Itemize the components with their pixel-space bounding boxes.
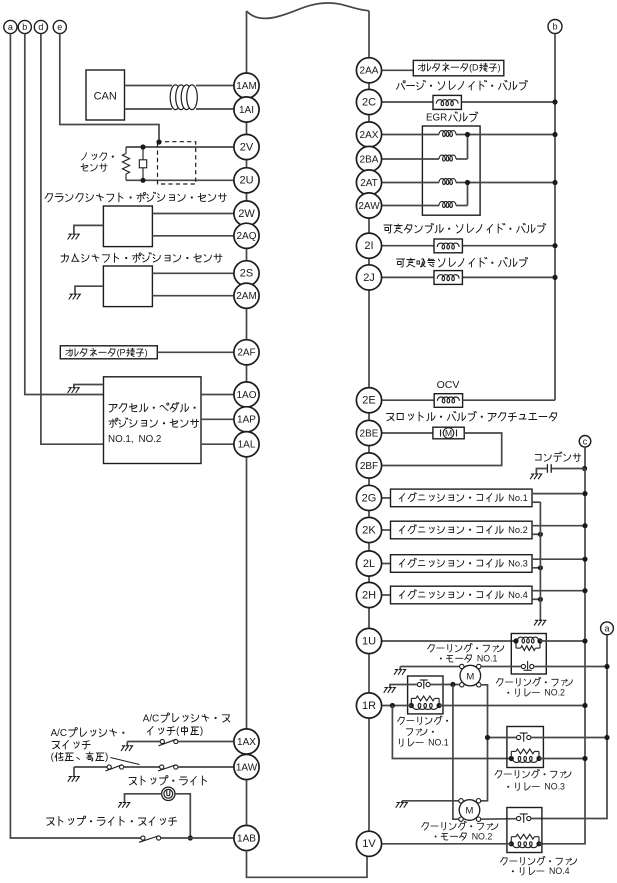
wire ign1 upper out xyxy=(532,493,585,495)
wire CAN low b xyxy=(196,108,234,110)
wire 2BE line xyxy=(382,432,433,434)
svg-text:2W: 2W xyxy=(238,208,255,220)
wire wave link xyxy=(247,3,370,18)
connector pin 2H xyxy=(356,582,381,607)
label fan relay2 line1 xyxy=(496,677,572,687)
wire AC lowhigh ground xyxy=(73,767,75,777)
svg-text:(D: (D xyxy=(469,63,479,73)
wire harness trunk right top xyxy=(368,11,370,58)
label camshaft position sensor xyxy=(61,253,222,262)
wire relay3 switch to a bus xyxy=(531,737,607,739)
svg-text:2AW: 2AW xyxy=(358,201,380,212)
wire motor1 ground stem xyxy=(399,667,401,670)
junction ign2 lower xyxy=(538,532,543,537)
connector pin 2AQ xyxy=(234,223,259,248)
wire relay1 ground xyxy=(390,685,417,688)
wire accel ground xyxy=(74,385,104,388)
label accel line2 xyxy=(109,418,199,428)
label EGR valve xyxy=(426,112,478,124)
connector pin 2J xyxy=(356,265,381,290)
cooling fan relay NO.1 box xyxy=(408,676,443,714)
node e (left) xyxy=(53,20,66,33)
EGR valve box xyxy=(422,126,480,215)
wire OCV to b bus xyxy=(463,399,555,401)
wire harness trunk left xyxy=(246,11,248,73)
wire relay1 coil to c bus xyxy=(439,705,585,707)
svg-text:No.2: No.2 xyxy=(508,525,528,535)
connector pin 1AO xyxy=(234,382,259,407)
wire 1U line xyxy=(382,640,516,642)
svg-text:2BF: 2BF xyxy=(360,461,378,472)
connector pin 2I xyxy=(356,233,381,258)
wire motor2 br to relay4 xyxy=(481,818,517,821)
junction EGR b xyxy=(465,180,470,185)
connector pin 1AB xyxy=(234,825,259,850)
wire switch to 1AB xyxy=(161,837,234,839)
wire relay4 coil right xyxy=(539,843,542,845)
label purge solenoid valve xyxy=(396,81,527,91)
junction ign1 upper xyxy=(582,491,587,496)
twisted pair coil xyxy=(170,85,197,110)
junction condenser xyxy=(582,466,587,471)
svg-text:オ: オ xyxy=(417,63,426,73)
label fan relay2 line2 xyxy=(507,688,565,698)
wire 2C line xyxy=(382,101,555,103)
wire bottom link xyxy=(247,851,368,878)
label fan relay1 line1 xyxy=(398,716,449,725)
wire CAN low xyxy=(125,108,173,110)
svg-text:1AM: 1AM xyxy=(236,81,257,92)
svg-text:2E: 2E xyxy=(362,395,375,407)
wire relay3 coil to c bus xyxy=(539,758,585,760)
wire ign3 lower out xyxy=(532,567,540,569)
svg-text:NO.2: NO.2 xyxy=(544,688,565,698)
junction a/relay2 xyxy=(604,664,609,669)
label fan motor2 line2 xyxy=(435,832,493,842)
switch AC low xyxy=(106,765,124,771)
connector pin 2U xyxy=(234,168,259,193)
svg-text:e: e xyxy=(57,22,62,32)
label throttle actuator xyxy=(387,412,557,422)
label fan relay3 line2 xyxy=(507,782,565,792)
knock sensor resistor xyxy=(122,147,129,180)
node a (right) xyxy=(601,622,614,635)
relay1 coil and resistor xyxy=(409,696,442,709)
svg-text:): ) xyxy=(200,726,203,737)
knock sensor piezo element xyxy=(139,147,146,180)
wire crank ground xyxy=(74,225,104,234)
wire AC lowhigh a xyxy=(74,766,107,768)
svg-text:2BE: 2BE xyxy=(360,428,379,439)
svg-text:NO.2: NO.2 xyxy=(472,832,493,842)
switch stop light xyxy=(139,836,161,843)
label fan relay1 line3 xyxy=(399,738,448,748)
connector pin 2V xyxy=(234,134,259,159)
throttle valve actuator xyxy=(433,427,464,439)
purge solenoid valve xyxy=(433,95,461,109)
junction ign4 upper xyxy=(582,588,587,593)
wire ignition ground bus xyxy=(539,502,541,620)
connector pin 2AT xyxy=(356,170,381,195)
label AC lowhigh line2 xyxy=(52,741,90,750)
wire accel to 1AO xyxy=(201,394,234,396)
junction knock bottom xyxy=(140,178,145,183)
svg-text:2H: 2H xyxy=(362,589,376,601)
connector pin 1AW xyxy=(234,754,259,779)
wire stop lamp right xyxy=(175,794,190,838)
connector pin 1R xyxy=(356,693,381,718)
label AC lowhigh line3 xyxy=(51,752,109,763)
wire knock to 2U xyxy=(126,179,234,181)
wire from node b xyxy=(25,34,104,395)
svg-text:1AB: 1AB xyxy=(237,833,256,844)
connector pin 1AI xyxy=(234,97,259,122)
wire CAN high xyxy=(125,85,173,87)
svg-text:2K: 2K xyxy=(362,524,376,536)
ground accel sensor xyxy=(68,388,80,393)
wire relay1 switch to motor1 xyxy=(430,684,459,686)
node a (left) xyxy=(4,20,17,33)
relay4 switch xyxy=(517,814,531,823)
wire 1R to relay1 xyxy=(382,705,412,707)
wire accel to 1AP xyxy=(201,418,234,420)
wire relay2 coil to c bus xyxy=(540,640,585,642)
svg-text:c: c xyxy=(583,437,588,447)
svg-text:2AQ: 2AQ xyxy=(236,231,256,242)
wire AC lowhigh to 1AW xyxy=(178,766,234,768)
camshaft position sensor box xyxy=(103,266,152,307)
svg-text:a: a xyxy=(604,624,609,634)
wire cam ground xyxy=(75,286,103,294)
svg-text:(P: (P xyxy=(117,348,126,358)
connector pin 2AA xyxy=(356,58,381,83)
junction b/EGR2 xyxy=(552,180,557,185)
wire 2J line xyxy=(382,276,555,278)
svg-text:NO.1: NO.1 xyxy=(428,738,449,748)
svg-text:d: d xyxy=(38,22,43,32)
svg-text:2C: 2C xyxy=(362,96,376,108)
wire relay2 switch left xyxy=(400,666,461,668)
connector pin 2L xyxy=(356,551,381,576)
wire relay2 switch to a bus xyxy=(534,666,607,668)
label tumble solenoid xyxy=(384,224,546,234)
svg-text:2V: 2V xyxy=(240,141,254,153)
relay2 switch xyxy=(521,661,534,670)
svg-text:No.3: No.3 xyxy=(508,558,528,568)
wire 2I line xyxy=(382,245,555,247)
cooling fan motor NO.2 xyxy=(459,799,481,822)
label knock sensor line2 xyxy=(81,164,107,172)
svg-text:1AX: 1AX xyxy=(237,737,256,748)
label knock sensor line1 xyxy=(81,153,114,161)
connector pin 2K xyxy=(356,517,381,542)
connector pin 1AP xyxy=(234,407,259,432)
wire AC mid to 1AX xyxy=(178,741,234,743)
ground ignition coils xyxy=(534,620,546,625)
wire ign4 lower out xyxy=(532,598,540,600)
svg-text:A/C: A/C xyxy=(143,713,159,724)
ground AC mid switch xyxy=(121,746,133,751)
wire ign4 upper out xyxy=(532,590,585,592)
junction ign3 upper xyxy=(582,557,587,562)
accel pedal position sensor box xyxy=(104,377,202,464)
ignition coil No.3 box xyxy=(391,555,533,573)
junction b/2I xyxy=(552,243,557,248)
junction knock top xyxy=(140,144,145,149)
wire ign2 lower out xyxy=(532,533,540,535)
EGR coil 2AW xyxy=(439,202,456,208)
label fan motor1 line2 xyxy=(440,654,498,664)
label fan motor2 line1 xyxy=(422,821,498,831)
stop light lamp xyxy=(162,787,175,800)
wire motor2 ground stem xyxy=(401,801,403,803)
svg-text:1V: 1V xyxy=(362,838,376,850)
junction shield/e-wire xyxy=(156,139,161,144)
label AC mid switch line1 xyxy=(143,713,230,725)
svg-text:OCV: OCV xyxy=(437,379,460,391)
wire 1V to relay4 xyxy=(382,843,512,845)
junction c/relay3 xyxy=(582,756,587,761)
svg-text:NO.3: NO.3 xyxy=(544,782,565,792)
svg-text:a: a xyxy=(8,22,13,32)
wire stop lamp left xyxy=(125,794,162,803)
svg-text:ァ: ァ xyxy=(491,643,500,653)
connector pin 2AM xyxy=(234,283,259,308)
svg-text:2L: 2L xyxy=(363,558,375,570)
svg-text:2G: 2G xyxy=(362,492,377,504)
svg-text:1AI: 1AI xyxy=(239,105,254,116)
junction ign4 lower xyxy=(538,597,543,602)
svg-text:ァ: ァ xyxy=(560,677,569,687)
wire a bus xyxy=(531,635,607,819)
svg-text:ァ: ァ xyxy=(485,821,494,831)
capacitor plates xyxy=(547,464,551,473)
wire ign3 upper out xyxy=(532,558,585,560)
label fan relay4 line2 xyxy=(512,866,570,876)
wire CAN high b xyxy=(196,85,234,87)
wire 2G to coil box xyxy=(382,497,391,499)
svg-text:2AA: 2AA xyxy=(360,66,379,77)
wire c stem xyxy=(584,447,586,468)
svg-text:ァ: ァ xyxy=(564,856,573,866)
cooling fan relay NO.4 box xyxy=(507,808,542,853)
ground cam sensor xyxy=(69,294,81,299)
wire motor1 to relay2 contact xyxy=(481,666,521,668)
connector pin 2E xyxy=(356,388,381,413)
ignition coil No.1 box xyxy=(391,489,533,507)
connector pin 1AM xyxy=(234,73,259,98)
wire crank to 2W xyxy=(152,213,234,215)
junction b/EGR1 xyxy=(552,132,557,137)
label crankshaft position sensor xyxy=(45,192,226,202)
wire b bus xyxy=(554,34,556,401)
connector pin 1V xyxy=(356,831,381,856)
connector pin 1AL xyxy=(234,432,259,457)
ground condenser xyxy=(530,474,542,479)
node c xyxy=(579,436,591,448)
wire motor1 bl down xyxy=(453,685,459,820)
knock sensor shield (dashed) xyxy=(158,142,196,184)
ground fan motor1 xyxy=(394,670,406,675)
junction ign3 lower xyxy=(538,565,543,570)
svg-text:): ) xyxy=(145,348,148,358)
junction b/2J xyxy=(552,275,557,280)
label accel line3 xyxy=(108,434,161,445)
wire 2H to coil box xyxy=(382,594,391,596)
EGR coil 2BA xyxy=(439,155,456,161)
relay4 coil and resistor xyxy=(509,834,542,847)
svg-text:b: b xyxy=(552,22,557,32)
connector pin 2C xyxy=(356,89,381,114)
wire c bus xyxy=(542,469,585,844)
wire crank to 2AQ xyxy=(152,235,234,237)
wire left trunk segments xyxy=(246,121,248,826)
wire from node e xyxy=(60,34,159,141)
svg-text:1AP: 1AP xyxy=(237,415,256,426)
junction stop lamp / 1AB xyxy=(188,835,193,840)
wire AC mid ground xyxy=(126,742,128,746)
svg-text:2AT: 2AT xyxy=(360,178,378,189)
wire 1R branch down xyxy=(392,706,511,759)
OCV solenoid xyxy=(434,394,462,408)
wire from node a xyxy=(10,34,140,838)
label condenser xyxy=(535,452,580,462)
connector pin 2W xyxy=(234,201,259,226)
svg-text:No.4: No.4 xyxy=(508,590,528,600)
crankshaft position sensor box xyxy=(103,206,152,247)
wire AC mid to contact xyxy=(127,741,160,743)
cooling fan relay NO.3 box xyxy=(507,727,544,768)
EGR coil 2AT xyxy=(439,179,456,185)
svg-text:NO.1,: NO.1, xyxy=(108,434,134,445)
svg-text:2S: 2S xyxy=(240,268,253,280)
label fan relay3 line1 xyxy=(495,769,571,779)
svg-text:1AW: 1AW xyxy=(236,762,258,773)
svg-text:2I: 2I xyxy=(364,240,373,252)
EGR coil 2AX xyxy=(439,131,456,137)
svg-text:NO.1: NO.1 xyxy=(477,654,498,664)
wire knock to 2V xyxy=(126,146,234,148)
wire cam to 2S xyxy=(152,272,234,274)
wire AC lowhigh b xyxy=(124,766,160,768)
ignition coil No.4 box xyxy=(391,586,533,604)
svg-text:EGR: EGR xyxy=(426,113,447,124)
junction motor1 bl xyxy=(450,682,455,687)
cooling fan relay NO.2 box xyxy=(511,634,546,675)
junction c/relay1 xyxy=(582,703,587,708)
switch AC mid xyxy=(159,739,178,746)
label AC mid switch line2 xyxy=(148,726,204,737)
svg-text:M: M xyxy=(466,806,474,817)
wire 2AA to box xyxy=(382,69,414,71)
wire ign2 upper out xyxy=(532,525,585,527)
relay2 coil and resistor xyxy=(513,637,542,650)
label intake solenoid xyxy=(397,258,528,268)
relay3 switch xyxy=(517,733,531,742)
label fan motor1 line1 xyxy=(428,643,504,653)
relay1 switch xyxy=(417,680,430,689)
connector pin 1AX xyxy=(234,729,259,754)
wire actuator loop to 2BF xyxy=(382,433,502,466)
wire accel to 1AL xyxy=(201,443,234,445)
svg-text:ァ: ァ xyxy=(414,727,423,737)
label stop light switch xyxy=(47,816,177,825)
connector pin 2S xyxy=(234,261,259,286)
svg-text:2AM: 2AM xyxy=(236,291,257,302)
svg-text:NO.4: NO.4 xyxy=(549,866,570,876)
ground crank sensor xyxy=(68,234,80,239)
leader line AC lowhigh xyxy=(111,758,140,765)
svg-text:M: M xyxy=(445,428,452,438)
svg-text:No.1: No.1 xyxy=(508,493,528,503)
wire 2K to coil box xyxy=(382,529,391,531)
svg-text:1AO: 1AO xyxy=(236,390,256,401)
EGR wires xyxy=(382,135,555,206)
wire motor1 br xyxy=(481,685,488,801)
svg-text:2BA: 2BA xyxy=(360,154,379,165)
ignition coil No.2 box xyxy=(391,521,533,539)
svg-text:CAN: CAN xyxy=(94,91,117,103)
svg-text:2AF: 2AF xyxy=(237,348,255,359)
wire motor2 ground line xyxy=(402,800,461,802)
ground relay1 xyxy=(384,688,396,693)
wire 2E line xyxy=(382,399,435,401)
relay3 coil and resistor xyxy=(509,749,542,762)
label stop light xyxy=(129,776,206,785)
connector pin 2AF xyxy=(234,340,259,365)
wire condenser left xyxy=(536,469,547,475)
svg-text:b: b xyxy=(22,22,27,32)
connector pin 2BF xyxy=(356,453,381,478)
connector pin 1U xyxy=(356,628,381,653)
svg-text:NO.2: NO.2 xyxy=(139,434,162,445)
svg-text:): ) xyxy=(498,63,501,73)
ground fan motor2 xyxy=(396,803,408,808)
junction a/relay3 xyxy=(604,735,609,740)
wire 2L to coil box xyxy=(382,563,391,565)
junction b/2C xyxy=(552,99,557,104)
svg-text:オ: オ xyxy=(65,348,74,358)
svg-text:1U: 1U xyxy=(362,635,376,647)
node d (left) xyxy=(34,20,47,33)
switch AC high xyxy=(158,765,178,771)
svg-text:1AL: 1AL xyxy=(238,440,256,451)
svg-text:M: M xyxy=(466,671,474,682)
label AC lowhigh line1 xyxy=(51,728,125,739)
junction relay3/motor1 br xyxy=(485,735,490,740)
connector pin 2BE xyxy=(356,420,381,445)
node b (top right) xyxy=(548,20,562,34)
label fan relay4 line1 xyxy=(501,856,577,866)
junction 1R branch xyxy=(390,703,395,708)
label fan relay1 line2 xyxy=(406,727,434,737)
wire from node d xyxy=(41,34,104,445)
wire right trunk segments xyxy=(368,82,370,832)
wire ign1 lower out xyxy=(532,501,540,503)
cooling fan motor NO.1 xyxy=(460,664,481,687)
connector pin 2G xyxy=(356,485,381,510)
svg-text:2AX: 2AX xyxy=(360,130,379,141)
connector pin 2BA xyxy=(356,146,381,171)
svg-text:): ) xyxy=(105,752,108,763)
wire condenser right xyxy=(551,468,584,470)
tumble solenoid valve xyxy=(434,239,462,253)
svg-text:2U: 2U xyxy=(239,175,253,187)
junction c/relay2 xyxy=(582,638,587,643)
ground AC lowhigh xyxy=(68,777,80,782)
svg-text:1R: 1R xyxy=(362,700,376,712)
alternator D-terminal box xyxy=(413,60,504,75)
